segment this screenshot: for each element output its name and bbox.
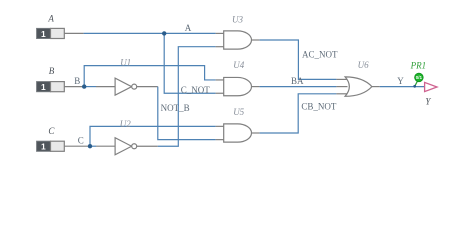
svg-text:PR1: PR1 xyxy=(410,61,427,71)
junction node A xyxy=(162,31,166,35)
svg-text:1: 1 xyxy=(41,82,46,92)
wire net CB_NOT from U5 to U6 xyxy=(260,94,337,133)
wire net A horizontal xyxy=(84,32,216,34)
svg-text:A: A xyxy=(47,13,54,23)
wire net AC_NOT from U3 to U6 xyxy=(260,40,337,79)
and-gate U5 xyxy=(216,124,260,142)
wire net Y output xyxy=(380,86,425,88)
svg-text:U2: U2 xyxy=(120,119,131,129)
svg-text:C: C xyxy=(48,126,55,136)
wire net C to U2 xyxy=(90,145,96,147)
wire net C_NOT from U2 up to U3 xyxy=(158,47,216,147)
probe PR1 xyxy=(413,73,423,88)
inverter U2 xyxy=(96,138,158,155)
svg-text:AC_NOT: AC_NOT xyxy=(302,50,338,60)
switch S_A (digital constant 1, input A) xyxy=(37,28,65,38)
and-gate U4 xyxy=(216,77,260,95)
svg-text:0/1: 0/1 xyxy=(416,75,423,80)
svg-text:Y: Y xyxy=(397,76,404,86)
wire net A branch down to U4 xyxy=(164,33,215,93)
svg-text:B: B xyxy=(74,76,80,86)
svg-text:U4: U4 xyxy=(233,60,244,70)
svg-text:C_NOT: C_NOT xyxy=(181,85,211,95)
inverter U1 xyxy=(96,78,158,95)
svg-text:B: B xyxy=(49,66,55,76)
svg-text:NOT_B: NOT_B xyxy=(161,103,190,113)
svg-text:U5: U5 xyxy=(233,107,244,117)
svg-text:1: 1 xyxy=(41,142,46,152)
pin stub switch C xyxy=(64,145,90,147)
junction node B xyxy=(82,84,86,88)
svg-text:C: C xyxy=(78,135,84,145)
svg-text:U6: U6 xyxy=(358,60,369,70)
svg-text:CB_NOT: CB_NOT xyxy=(301,101,337,111)
svg-text:A: A xyxy=(185,23,192,33)
junction node C xyxy=(88,144,92,148)
and-gate U3 xyxy=(216,31,260,49)
wire net BA from U4 to U6 xyxy=(260,86,337,88)
svg-text:1: 1 xyxy=(41,29,46,39)
svg-text:U1: U1 xyxy=(120,57,131,67)
wire net B branch up and over to U4 xyxy=(84,66,215,87)
wire net NOT_B from U1 down to U5 xyxy=(158,87,216,140)
connector Y (output arrow) xyxy=(425,82,437,91)
svg-text:BA: BA xyxy=(291,76,304,86)
wire net C branch up to U5 xyxy=(90,126,216,146)
or-gate U6 xyxy=(336,77,379,96)
pin stub switch B xyxy=(64,86,84,88)
svg-text:U3: U3 xyxy=(232,14,243,24)
pin stub switch A xyxy=(64,32,83,34)
wire net B to U1 xyxy=(84,86,96,88)
switch S_B (digital constant 1, input B) xyxy=(37,82,65,92)
switch S_C (digital constant 1, input C) xyxy=(37,141,65,151)
